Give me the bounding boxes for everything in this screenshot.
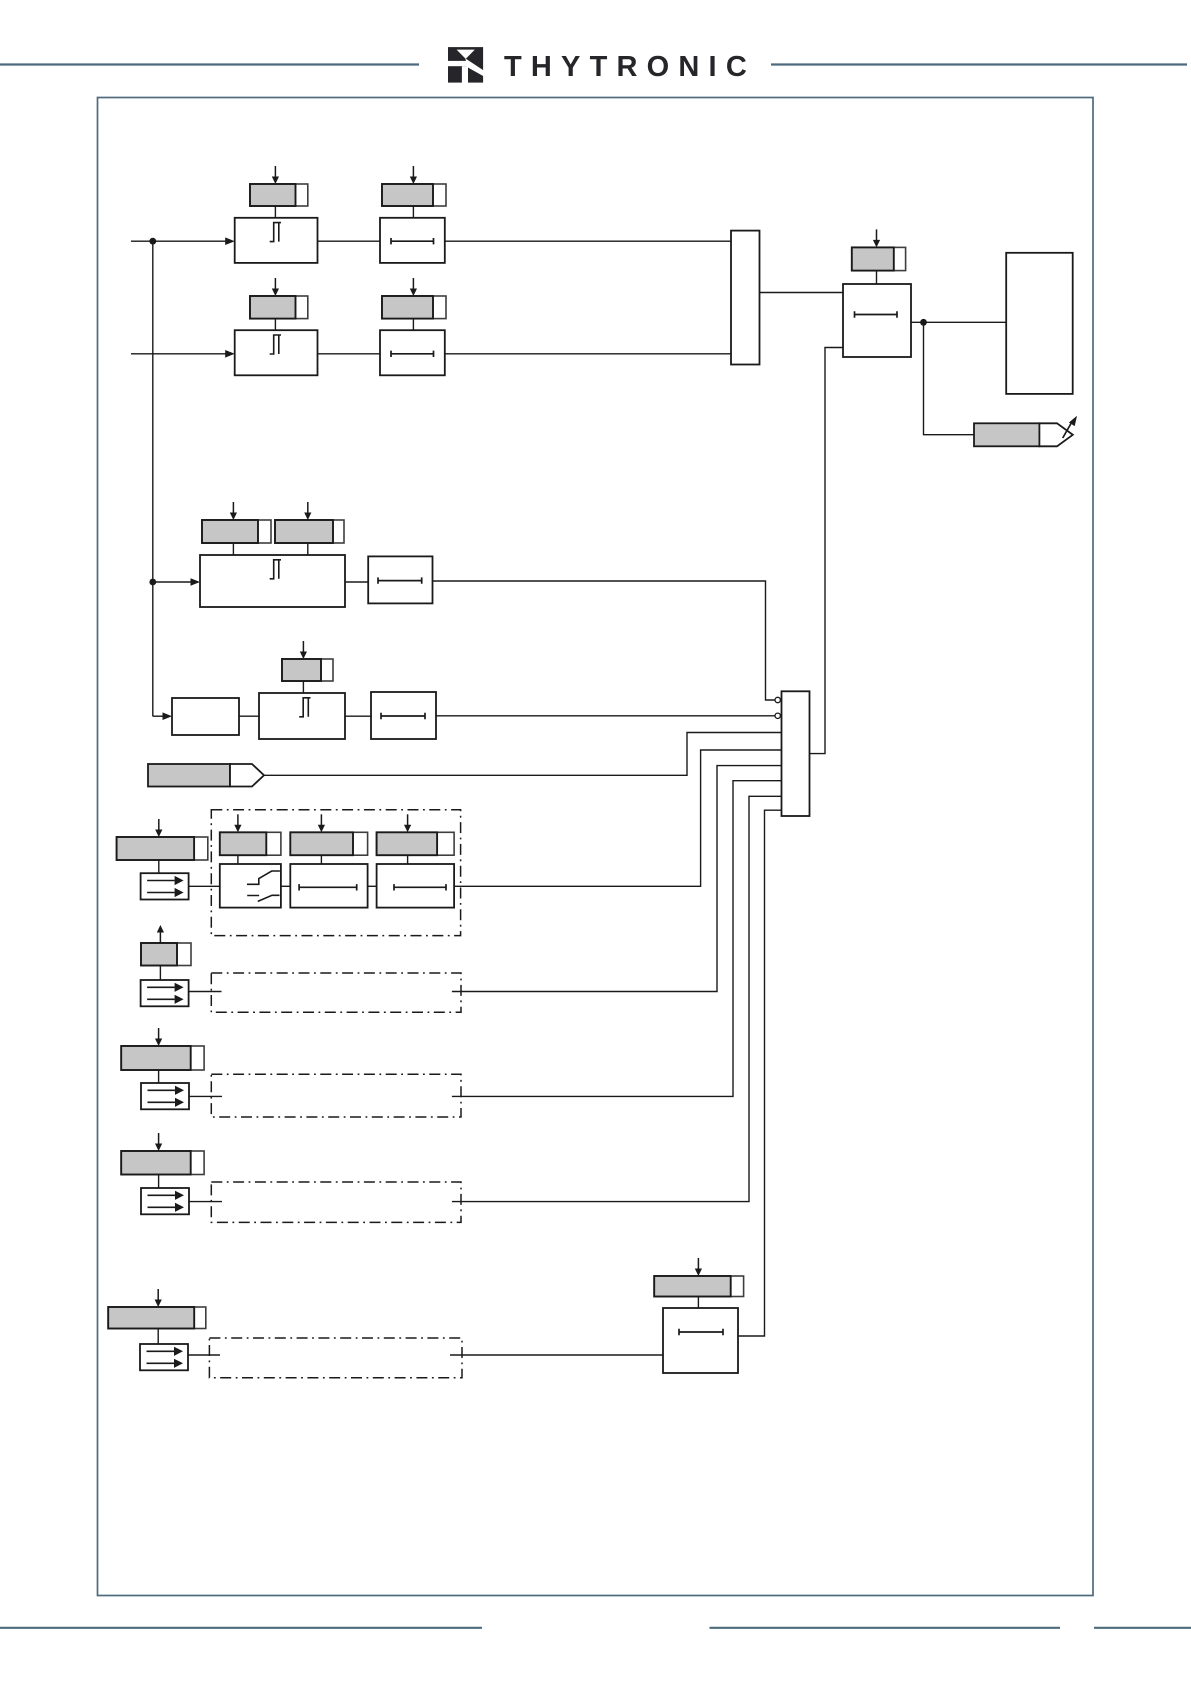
wire B11 to B12 xyxy=(368,885,377,887)
wire D4 into frame xyxy=(189,1201,222,1203)
arrow setting L1 xyxy=(272,166,279,184)
timer block T5 xyxy=(843,284,911,357)
arrow setting L4 xyxy=(410,278,417,296)
wire junction to tag xyxy=(924,322,975,434)
wire B9 to B10 xyxy=(345,715,371,717)
arrow setting L9 xyxy=(155,819,162,837)
arrow setting L7 xyxy=(304,502,311,520)
timer block B10 xyxy=(371,692,436,739)
negation bubble input 1 xyxy=(775,697,780,702)
arrow setting L2 xyxy=(410,166,417,184)
wire OR output to T5 xyxy=(810,348,844,754)
wire L11 to block xyxy=(320,855,322,864)
Thytronic logo mark xyxy=(447,47,485,84)
wire L16 to block xyxy=(157,1329,159,1345)
wire L7 to block xyxy=(307,543,309,555)
binary input frame G4 xyxy=(211,1182,461,1222)
arrow setting L10 xyxy=(234,814,241,832)
wire tag to OR input 3 xyxy=(264,733,782,776)
label setting L12 xyxy=(377,832,455,855)
arrow setting L5 xyxy=(873,229,880,247)
wire input row3 with arrowhead xyxy=(153,578,200,586)
label setting L2 xyxy=(382,184,446,206)
junction node row3 xyxy=(149,579,156,586)
wire B4 to collector xyxy=(445,353,731,355)
label setting L7 xyxy=(275,520,344,543)
footer rule left xyxy=(0,1627,482,1629)
wire D3 into frame xyxy=(189,1095,222,1097)
wire frame G2 to OR input 5 xyxy=(452,766,782,992)
label setting L13 xyxy=(141,943,191,966)
label setting L10 xyxy=(220,832,281,855)
timer block B7 xyxy=(368,556,432,603)
wire B3 to B4 xyxy=(318,353,381,355)
footer rule right xyxy=(1094,1627,1191,1629)
wire SW1 to B11 xyxy=(281,885,290,887)
arrow setting L15 xyxy=(155,1133,162,1151)
wire L12 to block xyxy=(407,855,409,864)
wire L15 to block xyxy=(158,1175,160,1189)
threshold block B6 xyxy=(200,555,345,607)
arrow setting L16 xyxy=(155,1289,162,1307)
switch block SW1 xyxy=(220,864,281,908)
binary input frame G2 xyxy=(211,973,461,1012)
threshold block B9 xyxy=(259,693,345,739)
label setting L15 xyxy=(121,1151,204,1175)
label setting L5 xyxy=(852,247,906,270)
arrow setting L3 xyxy=(272,278,279,296)
wire L5 to block xyxy=(876,271,878,284)
wire L2 to block xyxy=(412,206,414,218)
wire B12 to OR input 4 xyxy=(454,750,781,886)
label setting L11 xyxy=(290,832,367,855)
wire L6 to block xyxy=(232,543,234,555)
wire B1 to B2 xyxy=(318,240,381,242)
timer block B4 xyxy=(380,330,445,375)
wire L1 to block xyxy=(274,206,276,218)
binary input block D5 xyxy=(140,1344,188,1370)
wire L3 to block xyxy=(274,319,276,331)
arrow setting L6 xyxy=(230,502,237,520)
arrow setting L17 xyxy=(695,1258,702,1276)
header rule left xyxy=(0,63,419,65)
negation bubble input 2 xyxy=(775,713,780,718)
wire L4 to block xyxy=(412,319,414,331)
wire B7 to OR input 1 xyxy=(433,581,776,700)
arrow setting L11 xyxy=(318,814,325,832)
wire L17 to block xyxy=(697,1297,699,1309)
wire collector to timer T5 xyxy=(760,292,844,294)
OR gate xyxy=(782,691,810,816)
wire B10 to OR input 2 xyxy=(436,715,775,717)
threshold block B1 xyxy=(235,218,318,263)
svg-text:THYTRONIC: THYTRONIC xyxy=(504,51,756,83)
wire L9 to block xyxy=(158,860,160,873)
wire L10 to block xyxy=(237,855,239,864)
label setting L14 xyxy=(121,1046,204,1070)
junction node T5 output xyxy=(920,319,927,326)
wire frame G5 to timer B13 xyxy=(450,1354,663,1356)
wire D1 to switch xyxy=(189,885,220,887)
wire frame G3 to OR input 6 xyxy=(452,781,782,1097)
wire input row4 with arrowhead xyxy=(153,712,172,720)
wire left bus vertical xyxy=(152,241,154,716)
output tag flag xyxy=(974,423,1073,446)
timer block B2 xyxy=(380,218,445,263)
wire D2 into frame xyxy=(189,991,222,993)
binary input block D2 xyxy=(141,980,189,1006)
collector block xyxy=(731,231,760,365)
label setting L9 xyxy=(117,837,208,860)
label setting L3 xyxy=(250,296,308,319)
wire B2 to collector xyxy=(445,240,731,242)
label setting L8 xyxy=(282,659,333,681)
footer rule middle xyxy=(710,1627,1061,1629)
wire D5 into frame xyxy=(188,1354,220,1356)
arrow setting L12 xyxy=(404,814,411,832)
timer block B11 xyxy=(290,864,367,908)
input tag flag xyxy=(148,764,264,787)
wire L14 to block xyxy=(158,1070,160,1083)
arrow setting L14 xyxy=(155,1028,162,1046)
arrow setting L8 xyxy=(300,641,307,659)
junction node row1 xyxy=(149,238,156,245)
wire T5 to output box xyxy=(911,321,1006,323)
arrow setting L13 xyxy=(157,925,164,943)
wire input row2 with arrowhead xyxy=(131,350,235,358)
label setting L16 xyxy=(108,1307,206,1329)
binary input frame G5 xyxy=(209,1338,462,1378)
arrow output tag xyxy=(1063,416,1077,438)
diagram frame xyxy=(98,98,1094,1596)
header rule right xyxy=(771,63,1187,65)
input block B8 xyxy=(172,698,239,735)
label setting L17 xyxy=(654,1276,743,1297)
wire L13 to block xyxy=(159,966,161,981)
binary input block D3 xyxy=(141,1083,189,1109)
binary input frame G3 xyxy=(211,1074,461,1117)
wire OR input 8 to B13 xyxy=(738,810,782,1336)
binary input block D1 xyxy=(141,873,189,899)
output matrix block xyxy=(1006,253,1072,394)
label setting L4 xyxy=(382,296,446,319)
threshold block B3 xyxy=(235,330,318,375)
wire frame G4 to OR input 7 xyxy=(452,796,782,1201)
timer block B12 xyxy=(377,864,455,908)
label setting L1 xyxy=(250,184,308,206)
wire B6 to B7 xyxy=(345,581,368,583)
function group frame G1 xyxy=(211,810,460,936)
wire L8 to block xyxy=(302,681,304,693)
wire input row1 with arrowhead xyxy=(131,237,235,245)
timer block B13 xyxy=(663,1308,738,1373)
label setting L6 xyxy=(202,520,271,543)
binary input block D4 xyxy=(141,1188,189,1214)
wire B8 to B9 xyxy=(239,715,259,717)
